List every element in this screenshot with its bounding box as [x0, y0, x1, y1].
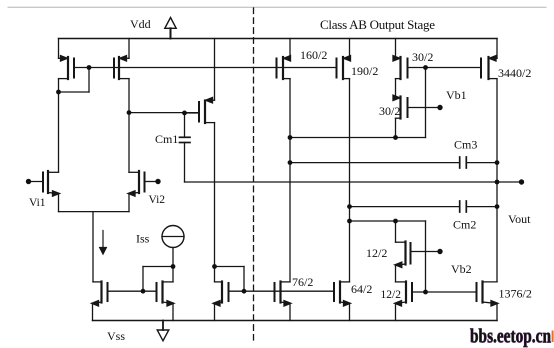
nmos M3 (tail mirror out): [92, 282, 108, 321]
wire 30/2 stack: [395, 79, 397, 97]
wire M3 M4 gate line: [108, 290, 157, 292]
junction nmos output gate: [423, 290, 428, 295]
svg-text:1376/2: 1376/2: [499, 287, 532, 301]
node Vout terminal: [519, 179, 524, 184]
junction M3 M4 gates: [141, 289, 146, 294]
junction M1 gate tie: [87, 65, 92, 70]
wire first stage output to M5 gate: [129, 112, 199, 114]
wire M4 diode tie: [143, 266, 173, 268]
svg-text:12/2: 12/2: [381, 289, 402, 301]
wire M2 drain to Vi2 drain: [128, 79, 130, 173]
wire 190/2 drain to 64/2 drain: [349, 79, 351, 282]
svg-text:190/2: 190/2: [351, 64, 378, 78]
wire tail node: [58, 194, 60, 212]
svg-text:30/2: 30/2: [379, 104, 400, 118]
svg-text:Vi1: Vi1: [29, 197, 46, 209]
Vdd supply symbol: [165, 18, 176, 39]
junction Cm3 right: [495, 160, 500, 165]
svg-text:Iss: Iss: [136, 232, 150, 246]
junction pmos output gate: [423, 65, 428, 70]
junction first stage output: [127, 110, 132, 115]
junction M7 gate: [242, 289, 247, 294]
wire nmos output gate line: [426, 291, 477, 293]
junction M7 drain: [212, 264, 217, 269]
pmos 30/2 lower (Vb1 device): [393, 95, 440, 137]
capacitor Cm1: [180, 113, 191, 182]
Vss ground symbol: [157, 321, 169, 341]
nmos 64/2: [334, 282, 351, 321]
nmos 12/2 lower: [395, 282, 426, 321]
node Vb1 terminal: [437, 105, 442, 110]
current source Iss: [162, 226, 184, 248]
junction M1 drain tie: [56, 90, 61, 95]
nmos 12/2 upper (Vb2 device): [395, 221, 440, 268]
node Vi1 terminal: [26, 179, 31, 184]
pmos M2 (first stage mirror, diode side): [114, 39, 129, 80]
svg-text:30/2: 30/2: [412, 50, 433, 64]
wire M7 diode tie: [215, 266, 245, 268]
junction Cm2 right: [495, 204, 500, 209]
nmos 1376/2 output device: [477, 282, 499, 321]
junction Cm1 top: [182, 111, 187, 116]
svg-text:Vb1: Vb1: [446, 88, 467, 102]
nmos Vi1 input transistor: [29, 171, 60, 196]
svg-text:Vb2: Vb2: [451, 262, 472, 276]
wire 12/2 stack: [395, 265, 397, 282]
svg-text:Cm2: Cm2: [453, 218, 476, 232]
stage separator dashed line: [253, 8, 255, 340]
wire M1 gate-drain tie: [88, 68, 90, 93]
capacitor Cm2: [350, 201, 498, 212]
junction 64/2 drain: [347, 219, 352, 224]
nmos 76/2: [275, 282, 292, 321]
nmos M7 (second mirror): [213, 282, 229, 321]
svg-text:76/2: 76/2: [292, 275, 313, 289]
wire Iss to M4 drain: [172, 248, 174, 282]
wire 30/2 + 3440/2 gate line: [408, 67, 482, 69]
wire output line: [185, 181, 522, 183]
svg-text:Class AB Output Stage: Class AB Output Stage: [320, 17, 435, 32]
svg-text:160/2: 160/2: [300, 48, 327, 62]
watermark bbs.eetop.cn: [470, 326, 554, 348]
junction 30/2 drain: [393, 135, 398, 140]
wire 3440/2 drain to output node: [496, 79, 498, 282]
svg-text:bbs.eetop.cn: bbs.eetop.cn: [470, 326, 551, 348]
nmos Vi2 input transistor: [128, 171, 158, 196]
node Vi2 terminal: [155, 179, 160, 184]
wire class AB drive line: [350, 220, 426, 222]
pmos M5 (level shifter): [185, 39, 215, 124]
junction Cm2 left: [347, 204, 352, 209]
svg-text:Vi2: Vi2: [149, 194, 166, 206]
junction 12/2 top: [393, 219, 398, 224]
wire nmos gate bias line: [229, 290, 335, 292]
junction Cm3 left: [288, 160, 293, 165]
wire M5 drain to M7: [214, 123, 216, 282]
nmos M4 (tail mirror diode): [157, 282, 175, 321]
scan artifact faint line: [8, 6, 546, 8]
wire M1 drain to Vi1 drain: [58, 79, 60, 173]
capacitor Cm3: [290, 157, 497, 168]
junction M4 drain: [171, 264, 176, 269]
pmos 30/2 upper (cascode bias): [393, 39, 408, 80]
current direction arrow: [100, 231, 107, 255]
node Vb2 terminal: [437, 249, 442, 254]
svg-text:Vout: Vout: [508, 212, 531, 226]
svg-text:3440/2: 3440/2: [498, 66, 531, 80]
Vss rail: [93, 320, 498, 322]
pmos 3440/2 output device: [481, 39, 497, 80]
wire pmos gate node to 160 branch: [425, 68, 427, 138]
wire 160/2 drain to 76/2 drain: [289, 79, 291, 282]
junction dots and terminals: [26, 65, 524, 294]
svg-text:Cm1: Cm1: [155, 132, 178, 146]
wire pmos gate bias line: [74, 67, 337, 69]
svg-text:Vdd: Vdd: [130, 17, 151, 31]
junction 160/2 drain upper: [288, 135, 293, 140]
Vdd rail: [59, 38, 498, 40]
svg-text:64/2: 64/2: [351, 282, 372, 296]
junction output node: [495, 180, 500, 185]
svg-text:Vss: Vss: [107, 329, 125, 343]
svg-text:Cm3: Cm3: [454, 138, 477, 152]
pmos 190/2: [337, 39, 351, 80]
pmos M1 (first stage mirror, top-left): [59, 39, 75, 80]
pmos 160/2: [277, 39, 291, 80]
svg-text:12/2: 12/2: [366, 246, 387, 260]
